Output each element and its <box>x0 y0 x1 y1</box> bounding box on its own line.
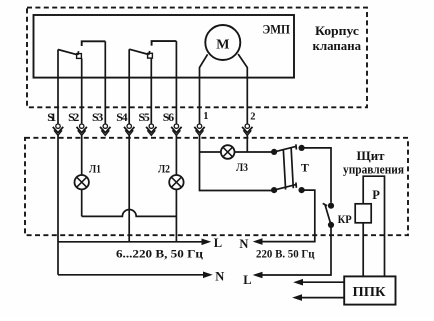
svg-text:Л2: Л2 <box>158 161 170 175</box>
svg-text:S5: S5 <box>138 110 149 124</box>
svg-text:Корпус: Корпус <box>315 24 359 38</box>
switch T bottom-left contact dot <box>271 187 277 193</box>
plug-socket terminal S3 <box>100 124 110 135</box>
limit switch SQ1 lever <box>58 50 79 56</box>
svg-text:2: 2 <box>250 112 255 123</box>
relay coil P loop wires <box>363 176 384 276</box>
wire terminal 1 down and right to switch T bottom-left <box>200 135 272 191</box>
relay contact КР top dot <box>328 203 334 209</box>
svg-text:Л1: Л1 <box>89 161 101 175</box>
terminal labels S1-S6 1 2 <box>47 110 255 124</box>
switch T gang linkage lines <box>283 147 293 189</box>
label Л1 <box>89 161 101 175</box>
ППК output wire lower <box>302 297 345 299</box>
svg-text:клапана: клапана <box>313 39 362 53</box>
plug-socket terminal S5 <box>146 124 156 135</box>
svg-text:S2: S2 <box>68 110 79 124</box>
label КР <box>338 212 352 226</box>
wire S2 from contact square <box>81 58 83 123</box>
limit switch SQ1 fixed-contact bar <box>82 41 106 46</box>
wire S2 down to lamp L1 <box>81 135 83 175</box>
relay contact КР lever <box>323 203 331 225</box>
wire switch T top-right to KP contact <box>302 148 331 203</box>
relay contact КР bottom dot <box>328 222 334 228</box>
wire КР bottom to L rail (right) <box>262 225 331 275</box>
label N right <box>239 237 248 251</box>
lamp Л2 <box>169 175 183 189</box>
label N <box>215 270 224 284</box>
wire S3 from bar <box>104 41 106 123</box>
switch T top-left contact dot <box>271 149 277 155</box>
valve body dashed enclosure (Корпус клапана) <box>27 8 367 108</box>
label 6...220 В, 50 Гц <box>116 249 203 261</box>
wire terminal 1 tap to lamp L3 line <box>200 151 221 153</box>
label Л2 <box>158 161 170 175</box>
svg-text:КР: КР <box>338 212 352 226</box>
label 220 В. 50 Гц <box>256 249 315 261</box>
svg-text:S1: S1 <box>47 110 56 124</box>
wire P box bottom to ППК <box>362 223 364 277</box>
wire switch T bottom-right to N rail (right) <box>262 190 315 242</box>
arrowhead L rail <box>202 239 212 246</box>
svg-text:ЭМП: ЭМП <box>262 23 290 37</box>
arrowhead N rail <box>203 272 213 279</box>
label Корпус клапана <box>313 24 362 53</box>
plug-socket terminal 1 <box>194 124 204 135</box>
label Щит управления <box>343 148 404 177</box>
plug-socket terminal S6 <box>171 124 181 135</box>
svg-text:1: 1 <box>203 111 208 122</box>
EMP solenoid unit inner box U1 <box>34 15 295 78</box>
switch T bottom lever <box>274 182 296 190</box>
L supply rail (left) <box>58 241 203 243</box>
motor wire to terminal 1 <box>200 54 208 123</box>
svg-text:управления: управления <box>343 163 404 177</box>
svg-text:Щит: Щит <box>357 148 386 163</box>
wire S4 down to L rail <box>128 135 130 242</box>
label Т <box>301 160 309 174</box>
wire lamp L3 to switch T top-left <box>235 151 272 153</box>
control panel dashed enclosure (Щит управления) <box>25 138 408 235</box>
lamp Л1 <box>75 175 89 189</box>
limit switch SQ2 common wire (pole, to S4) <box>128 49 130 123</box>
arrowhead ППК upper <box>293 279 303 286</box>
limit switch SQ2 moving contact square <box>148 53 153 58</box>
ППК output wire upper <box>303 281 345 283</box>
label Р <box>372 188 380 202</box>
wire S5 from contact square <box>150 58 152 124</box>
limit switch SQ2 fixed-contact bar <box>152 41 177 46</box>
svg-text:L: L <box>214 236 222 250</box>
N supply rail (left) <box>58 274 204 276</box>
svg-text:S4: S4 <box>116 110 127 124</box>
limit switch SQ1 moving contact square <box>77 54 82 59</box>
motor M circle <box>205 25 240 60</box>
svg-text:Т: Т <box>301 160 309 174</box>
wire terminal 2 down to lamp L3 line <box>246 135 248 152</box>
svg-text:М: М <box>216 38 229 53</box>
switch T bottom-right contact dot <box>299 187 305 193</box>
wire lamp L2 bottom to L rail <box>175 190 177 242</box>
svg-text:Р: Р <box>372 188 380 202</box>
ППК unit box <box>344 276 395 304</box>
svg-text:Л3: Л3 <box>236 160 248 174</box>
plug-socket terminal S2 <box>77 124 87 135</box>
limit switch SQ2 lever <box>129 49 150 55</box>
motor wire to terminal 2 <box>238 54 247 124</box>
svg-text:ППК: ППК <box>353 284 386 299</box>
svg-text:6...220 В, 50 Гц: 6...220 В, 50 Гц <box>116 249 203 261</box>
label ППК <box>353 284 386 299</box>
wire S1 down to N rail <box>57 135 59 275</box>
switch T top-right contact dot <box>299 145 305 151</box>
arrowhead N rail right <box>253 238 263 245</box>
label Л3 <box>236 160 248 174</box>
svg-text:L: L <box>243 273 251 287</box>
arrowhead ППК lower <box>292 294 302 301</box>
lamp Л3 <box>221 145 235 159</box>
svg-text:N: N <box>239 237 248 251</box>
wire S6 down to lamp L2 <box>175 135 177 175</box>
svg-text:N: N <box>215 270 224 284</box>
plug-socket terminal 2 <box>242 124 252 135</box>
wire S6 from bar <box>175 41 177 124</box>
switch T top lever <box>274 144 296 152</box>
limit switch SQ1 common wire (pole, to S1) <box>57 50 59 124</box>
svg-text:S6: S6 <box>163 110 174 124</box>
label L right <box>243 273 251 287</box>
relay coil P box <box>355 204 371 223</box>
arrowhead L rail right <box>253 272 263 279</box>
plug-socket terminal S4 <box>124 124 134 135</box>
plug-socket terminal S1 <box>53 124 63 135</box>
wire joining lamp bottoms with hop over S4 wire <box>82 209 177 216</box>
svg-text:220 В. 50 Гц: 220 В. 50 Гц <box>256 249 315 261</box>
label М <box>216 38 229 53</box>
label L <box>214 236 222 250</box>
wire lamp L1 bottom <box>81 190 83 217</box>
svg-text:S3: S3 <box>92 110 103 124</box>
label ЭМП <box>262 23 290 37</box>
